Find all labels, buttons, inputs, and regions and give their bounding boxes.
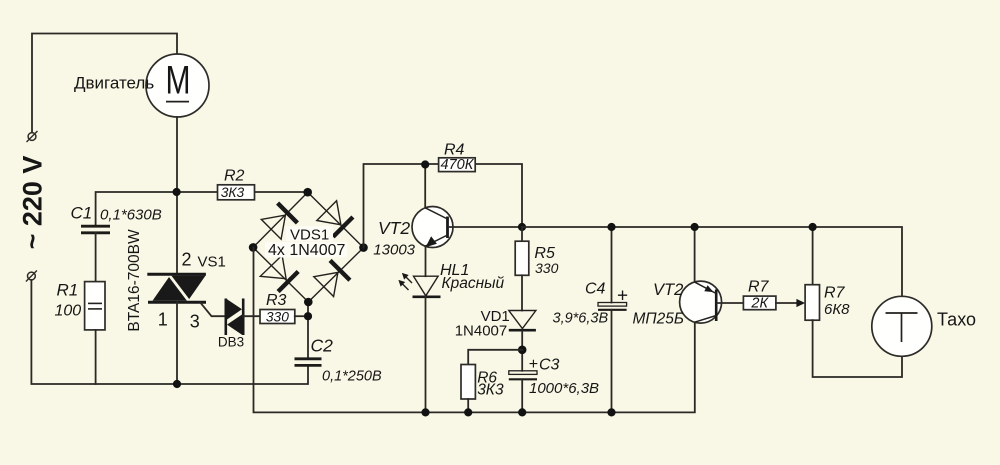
wire C4 top stem — [611, 227, 613, 303]
transistor VT2 МП25Б — [680, 281, 722, 323]
wire bridge bottom to C2 — [307, 302, 309, 359]
svg-text:330: 330 — [266, 309, 289, 324]
svg-text:1N4007: 1N4007 — [455, 323, 508, 340]
resistor R6 box — [461, 365, 475, 400]
wire top-left loop from mains terminal to motor — [32, 34, 177, 133]
svg-text:Двигатель: Двигатель — [74, 74, 154, 93]
svg-text:C2: C2 — [311, 336, 334, 356]
svg-text:VT2: VT2 — [653, 281, 683, 299]
node C4/top rail — [607, 223, 615, 231]
wire C1 branch — [96, 192, 177, 226]
wire motor to triac anode2 — [176, 117, 178, 274]
terminal X2 lower (~220V) — [26, 271, 37, 282]
svg-text:С3: С3 — [539, 356, 560, 373]
wire lower mains rail — [31, 280, 308, 384]
svg-text:4x 1N4007: 4x 1N4007 — [268, 242, 345, 259]
capacitor C2 — [295, 359, 322, 366]
svg-text:330: 330 — [535, 260, 559, 276]
svg-text:Тахо: Тахо — [937, 310, 976, 330]
diode VDS1a top-left: cathode bar — [278, 203, 298, 223]
resistor R7 box — [743, 296, 776, 310]
diode VDS1b top-right: cathode bar — [333, 217, 353, 237]
wire VT2 base to node — [449, 226, 522, 228]
node VT3 emitter/top rail — [691, 223, 699, 231]
svg-text:C1: C1 — [71, 203, 93, 222]
capacitor C3 electrolytic — [509, 371, 537, 380]
node base/R5 junction — [518, 223, 526, 231]
wire R3 to node — [295, 315, 308, 317]
node bridge bottom vertex — [304, 298, 313, 307]
diac DB3 — [225, 299, 244, 336]
svg-text:1000*6,3В: 1000*6,3В — [529, 380, 599, 397]
node potentiometer/top rail — [809, 223, 817, 231]
node C3/bottom rail — [518, 408, 526, 416]
svg-text:VDS1: VDS1 — [290, 226, 329, 243]
wire R6 to bottom rail — [467, 399, 469, 412]
wire top DC rail to tacho — [522, 227, 902, 296]
svg-text:~ 220 V: ~ 220 V — [18, 156, 48, 250]
wire VT2 collector up to R4 rail — [424, 165, 426, 208]
wire R2 rail to bridge top — [177, 191, 308, 193]
svg-text:13003: 13003 — [373, 241, 415, 258]
node bridge right vertex — [359, 243, 368, 252]
svg-text:МП25Б: МП25Б — [633, 311, 684, 328]
svg-text:R7: R7 — [824, 285, 846, 302]
svg-text:470К: 470К — [441, 157, 475, 173]
capacitor C4 electrolytic — [598, 303, 627, 310]
tachogenerator circle — [872, 296, 932, 356]
LED HL1 — [398, 273, 440, 297]
svg-text:VS1: VS1 — [198, 253, 226, 270]
transistor VT2 13003 — [412, 207, 453, 248]
triac VS1 — [147, 273, 206, 303]
svg-text:DB3: DB3 — [218, 335, 244, 350]
node collector/R4 junction — [421, 160, 429, 168]
svg-text:0,1*250В: 0,1*250В — [322, 369, 382, 385]
node bridge top vertex — [303, 188, 312, 197]
svg-text:3: 3 — [190, 312, 200, 332]
wire HL1 cathode to bottom rail — [425, 297, 427, 413]
diode VDS1a top-left: triangle — [261, 215, 285, 239]
svg-text:R7: R7 — [748, 279, 770, 296]
svg-text:Красный: Красный — [442, 275, 505, 292]
svg-text:3,9*6,3В: 3,9*6,3В — [553, 311, 609, 327]
svg-text:М: М — [166, 59, 191, 103]
wire R1 to bottom rail — [95, 330, 97, 384]
label VDS1 — [286, 226, 333, 243]
node C4/bottom rail — [607, 408, 615, 416]
diode VDS1b top-right: triangle — [317, 201, 341, 225]
svg-text:+: + — [529, 356, 538, 373]
svg-text:3К3: 3К3 — [477, 382, 504, 399]
label 4x 1N4007 — [265, 242, 347, 259]
motor M1 circle — [146, 54, 209, 117]
diode VDS1c bottom-left: cathode bar — [278, 272, 298, 292]
wire R7 to potentiometer wiper arrow — [776, 299, 805, 307]
svg-text:2: 2 — [181, 250, 191, 270]
resistor R4 box — [439, 158, 476, 172]
wire C1 to R1 — [95, 233, 97, 282]
potentiometer R7 6К8 box — [805, 285, 819, 321]
wire triac gate — [201, 303, 226, 316]
capacitor C1 — [81, 226, 110, 233]
node junction motor/R2/C1 — [173, 188, 181, 196]
svg-text:С4: С4 — [585, 280, 606, 297]
svg-text:R2: R2 — [224, 168, 245, 185]
node bridge left vertex — [249, 243, 258, 252]
wire R5 to VD1 — [521, 275, 523, 310]
svg-text:BTA16-700BW: BTA16-700BW — [126, 229, 143, 332]
svg-text:2К: 2К — [750, 295, 769, 311]
svg-text:0,1*630В: 0,1*630В — [100, 207, 162, 224]
wire node to R6 — [468, 350, 522, 365]
wire VT3 base to R7 — [717, 302, 743, 304]
svg-text:R3: R3 — [266, 292, 287, 309]
node HL1/bottom rail — [421, 408, 429, 416]
wire C4 to bottom rail — [611, 310, 613, 413]
wire potentiometer bottom to tacho bottom — [813, 320, 902, 377]
node R3/C2/bridge junction — [304, 312, 312, 320]
resistor R3 box — [260, 310, 295, 324]
terminal X1 upper (~220V) — [27, 131, 38, 142]
resistor R1 — [85, 282, 105, 330]
wire DB3 to R3 — [243, 315, 260, 317]
node triac/bottom-rail junction — [173, 380, 181, 388]
svg-text:+: + — [617, 286, 628, 307]
wire VT3 emitter stem — [694, 227, 696, 282]
resistor R5 box — [515, 227, 529, 275]
svg-text:100: 100 — [55, 302, 82, 319]
wire C3 to bottom rail — [521, 379, 523, 412]
wire bridge right vertex up to R4 rail and down to base node — [364, 164, 523, 248]
wire VT2 emitter to HL1 — [425, 246, 427, 276]
node VD1/R6/C3 junction — [518, 346, 527, 355]
wire bridge left vertex down and DC minus rail to VT2 collector — [254, 247, 695, 412]
svg-text:VT2: VT2 — [378, 218, 410, 238]
diode VDS1c bottom-left: triangle — [260, 255, 286, 278]
svg-text:3К3: 3К3 — [221, 185, 245, 200]
diode VD1 — [509, 311, 536, 331]
svg-text:R1: R1 — [57, 280, 79, 299]
wire triac anode1 to bottom rail — [176, 302, 178, 384]
svg-text:1: 1 — [158, 309, 168, 329]
resistor R2 box — [218, 185, 255, 200]
node R6/bottom rail — [464, 408, 472, 416]
diode VDS1d bottom-right: triangle — [314, 272, 338, 296]
wire VD1 to C3 node — [521, 330, 523, 371]
bridge VDS1 diamond sides — [253, 192, 363, 302]
svg-text:6К8: 6К8 — [824, 301, 850, 318]
wire potentiometer top stem — [812, 227, 814, 285]
diode VDS1d bottom-right: cathode bar — [330, 260, 350, 280]
